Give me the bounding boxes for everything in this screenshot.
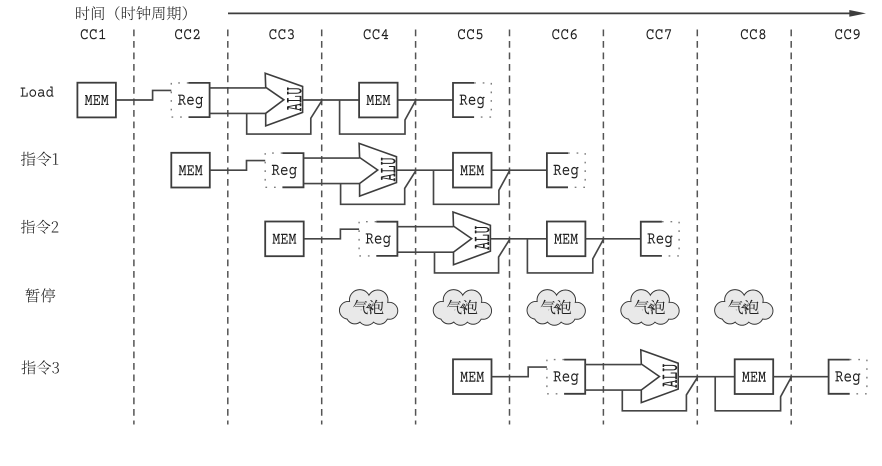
column header CC8 <box>741 29 766 39</box>
time axis arrow <box>228 10 866 17</box>
column separator dashed line between CC1 and CC2 <box>133 30 135 425</box>
row 指令3: MEM box (MEM stage, CC8) <box>735 359 774 394</box>
row label Load <box>21 87 54 97</box>
row 指令2: ALU bypass loop wire <box>435 240 510 273</box>
row Load: MEM box (MEM stage, CC4) <box>359 83 398 118</box>
row Load: wire Reg to ALU upper <box>210 87 266 89</box>
row 指令2: Reg box write (WB stage, CC7) <box>641 222 679 256</box>
row 指令3: Reg box write (WB stage, CC9) <box>829 360 867 394</box>
row 指令1: Reg box read (ID stage, CC3) <box>265 153 303 187</box>
column header CC3 <box>269 29 294 39</box>
column header CC5 <box>458 29 483 39</box>
row 指令1: Reg box write (WB stage, CC6) <box>547 153 585 187</box>
column header CC4 <box>364 29 389 39</box>
row 指令3: ALU bypass loop wire <box>622 378 697 411</box>
row 指令3: wire ALU to MEM <box>678 376 735 378</box>
row Load: wire MEM to Reg with step <box>116 90 171 100</box>
column separator dashed line between CC5 and CC6 <box>509 30 511 425</box>
row label 指令1 <box>21 152 58 166</box>
column header CC7 <box>647 29 672 39</box>
row 指令3: wire Reg to ALU upper <box>585 364 641 366</box>
stall bubble cloud 气泡 in CC7 <box>621 290 678 325</box>
row Load: wire Reg to ALU lower <box>210 112 266 114</box>
row Load: wire ALU to MEM <box>303 99 360 101</box>
row 指令3: MEM box (IF stage, CC5) <box>453 359 492 394</box>
time axis title 时间(时钟周期) <box>76 6 187 20</box>
row 指令3: ALU (EX stage, CC7) <box>641 350 678 403</box>
row 指令1: MEM box (IF stage, CC2) <box>171 153 210 188</box>
stall bubble cloud 气泡 in CC8 <box>715 290 772 325</box>
row 指令2: wire ALU to MEM <box>490 238 547 240</box>
row 指令2: Reg box read (ID stage, CC4) <box>359 222 397 256</box>
row label 暂停 <box>25 288 55 302</box>
column separator dashed line between CC4 and CC5 <box>415 30 417 425</box>
row Load: wire MEM to Reg write <box>398 99 453 101</box>
row label 指令3 <box>21 360 58 374</box>
row 指令1: wire Reg to ALU upper <box>304 157 360 159</box>
stall bubble cloud 气泡 in CC5 <box>434 290 491 325</box>
row Load: Reg box write (WB stage, CC5) <box>453 83 491 117</box>
column header CC1 <box>81 29 106 39</box>
row 指令2: wire Reg to ALU upper <box>397 226 453 228</box>
row Load: ALU bypass loop wire <box>247 101 322 134</box>
row Load: MEM bypass loop wire <box>340 100 416 134</box>
row Load: ALU (EX stage, CC3) <box>265 73 302 126</box>
row 指令1: wire ALU to MEM <box>397 169 454 171</box>
row 指令3: wire Reg to ALU lower <box>585 389 641 391</box>
row Load: MEM box (IF stage, CC1) <box>77 83 116 118</box>
column separator dashed line between CC2 and CC3 <box>227 30 229 425</box>
row 指令3: MEM bypass loop wire <box>715 377 791 411</box>
row 指令3: wire MEM to Reg write <box>773 376 828 378</box>
stall bubble cloud 气泡 in CC6 <box>528 290 585 325</box>
row 指令1: wire Reg to ALU lower <box>304 183 360 185</box>
column separator dashed line between CC6 and CC7 <box>602 30 604 425</box>
row 指令2: ALU (EX stage, CC5) <box>453 212 490 265</box>
row 指令1: ALU bypass loop wire <box>341 171 416 204</box>
row 指令1: ALU (EX stage, CC4) <box>359 143 396 196</box>
row label 指令2 <box>21 220 58 234</box>
row 指令2: wire MEM to Reg write <box>585 238 640 240</box>
row 指令1: MEM box (MEM stage, CC5) <box>453 153 492 188</box>
row 指令2: MEM bypass loop wire <box>527 239 603 273</box>
row Load: Reg box read (ID stage, CC2) <box>171 83 209 117</box>
row 指令1: wire MEM to Reg with step <box>210 161 265 171</box>
row 指令2: MEM box (IF stage, CC3) <box>265 222 304 257</box>
column separator dashed line between CC7 and CC8 <box>696 30 698 425</box>
row 指令3: Reg box read (ID stage, CC6) <box>547 360 585 394</box>
column separator dashed line between CC3 and CC4 <box>321 30 323 425</box>
row 指令2: wire Reg to ALU lower <box>397 251 453 253</box>
row 指令2: wire MEM to Reg with step <box>304 229 359 239</box>
row 指令3: wire MEM to Reg with step <box>492 367 547 377</box>
row 指令1: wire MEM to Reg write <box>492 169 547 171</box>
row 指令2: MEM box (MEM stage, CC6) <box>547 222 586 257</box>
column separator dashed line between CC8 and CC9 <box>790 30 792 425</box>
stall bubble cloud 气泡 in CC4 <box>340 290 397 325</box>
column header CC9 <box>835 29 860 39</box>
column header CC2 <box>175 29 200 39</box>
column header CC6 <box>552 29 577 39</box>
row 指令1: MEM bypass loop wire <box>434 170 510 204</box>
